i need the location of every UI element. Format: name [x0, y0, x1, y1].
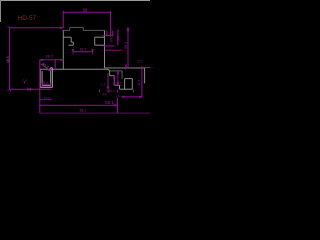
right box right wall: [131, 79, 133, 90]
bottom marks tick b: [108, 90, 110, 93]
right boss top finger: [95, 36, 105, 38]
dim right small arrows: [102, 34, 113, 36]
svg-text:8.4: 8.4: [43, 81, 48, 85]
svg-text:1.6: 1.6: [119, 82, 123, 87]
dim bottom right extension: [116, 98, 118, 114]
svg-text:2.6: 2.6: [116, 36, 120, 41]
right corner arc: [107, 69, 110, 72]
svg-text:18.2: 18.2: [45, 54, 54, 59]
right step wall 1: [109, 72, 111, 76]
svg-text:38: 38: [83, 8, 88, 13]
dim tall right top arrow: [126, 28, 129, 31]
channel outer left wall: [39, 69, 41, 87]
profile bottom face: [40, 68, 107, 70]
right boss inner wall: [94, 37, 96, 45]
dim 38 left extension: [62, 11, 64, 29]
dim 16.2 line: [73, 51, 93, 53]
svg-text:0.9: 0.9: [102, 93, 107, 97]
dim 18.2 arrows: [40, 59, 64, 61]
profile bump right wall: [82, 27, 84, 30]
dim right top tick 2: [112, 31, 114, 37]
channel outer bottom: [40, 86, 52, 88]
dim step wall overlay: [113, 76, 115, 85]
window top border: [0, 0, 150, 2]
dim small tick left: [24, 82, 26, 84]
svg-text:4.9: 4.9: [109, 37, 113, 42]
right step wall 3: [119, 85, 121, 89]
right inner wall: [121, 71, 123, 79]
svg-text:HD-57: HD-57: [18, 15, 37, 22]
dim step vertical: [117, 71, 119, 85]
bottom marks tick c: [117, 90, 119, 93]
channel inner bottom: [42, 85, 51, 87]
right box left wall: [124, 79, 126, 90]
dim left top arrow: [60, 27, 63, 29]
dim left corner arrows: [7, 26, 11, 91]
dim right horizontal long line: [105, 67, 150, 69]
dim 10.6 line: [40, 99, 52, 101]
profile bump top: [70, 26, 83, 28]
channel ledge: [51, 67, 53, 69]
channel inner left wall: [41, 71, 43, 86]
dim 8.4 ticks: [42, 83, 51, 87]
dim left top extension: [10, 27, 63, 29]
dim right small line: [105, 34, 111, 36]
right step wall 2: [113, 76, 115, 86]
dim 8.4 line: [42, 84, 51, 86]
right boss bottom finger: [95, 44, 105, 46]
left boss top finger: [63, 36, 71, 38]
right flange top: [105, 67, 145, 69]
dim 18.2 drop line: [39, 60, 41, 113]
svg-text:16.2: 16.2: [79, 48, 86, 52]
dim 18.2 mid tick: [54, 60, 56, 70]
svg-text:1.6: 1.6: [115, 94, 120, 98]
right inner ledge: [110, 70, 123, 72]
dim left height line: [9, 28, 11, 90]
svg-text:1.4: 1.4: [22, 79, 27, 83]
radius leader line: [40, 64, 50, 71]
right step tread 1: [110, 75, 115, 77]
profile top face left: [63, 29, 70, 31]
dim right inner vertical arrow: [107, 87, 109, 90]
profile right wall: [104, 30, 106, 68]
profile bump left wall: [69, 27, 71, 30]
dim tall right line: [127, 28, 129, 68]
dim right lower line: [104, 45, 115, 47]
svg-text:39.1: 39.1: [124, 42, 128, 49]
bottom right dim line: [122, 96, 142, 98]
dim bottom 56.1 line: [40, 104, 118, 106]
dim step vertical arrows: [117, 71, 119, 85]
svg-text:10.6: 10.6: [44, 96, 50, 100]
dim right lower line 2: [105, 49, 122, 51]
dim 38 line: [63, 11, 110, 13]
svg-text:4.3: 4.3: [110, 89, 115, 93]
dim 2.5 vertical: [141, 66, 143, 97]
svg-text:48.5: 48.5: [6, 56, 10, 63]
dim left bottom extension: [10, 88, 51, 90]
profile left wall: [62, 30, 64, 69]
dim 16.2 arrows: [72, 49, 93, 55]
dim 38 right extension: [110, 11, 112, 37]
right flange wall: [144, 68, 146, 83]
bottom marks tick a: [98, 90, 100, 93]
svg-text:56.1: 56.1: [80, 109, 87, 113]
dim bottom right arrow: [114, 104, 117, 106]
svg-text:2.5: 2.5: [137, 60, 142, 64]
dim base line bottom: [40, 112, 150, 114]
right step tread 2: [114, 84, 119, 86]
right box top: [125, 78, 133, 80]
dim right inner vertical: [107, 73, 109, 89]
dim right top tick 1: [106, 31, 108, 37]
left boss step: [71, 41, 73, 43]
channel inner right wall: [50, 68, 52, 86]
svg-text:11.6: 11.6: [137, 79, 141, 85]
svg-text:56.1: 56.1: [105, 100, 114, 105]
channel outer right wall: [51, 68, 53, 88]
bottom marks arrow line: [106, 90, 109, 92]
down arrow on horizontal: [125, 65, 127, 71]
profile top face right: [83, 29, 104, 31]
dim bottom-left junction arrow: [28, 88, 32, 91]
bottom right dim arrows: [122, 96, 142, 98]
dim right vert small: [117, 30, 119, 46]
left boss outer wall: [70, 37, 72, 42]
left boss lower wall: [72, 42, 74, 45]
svg-text:1.3: 1.3: [101, 82, 106, 86]
left boss bottom finger: [69, 44, 74, 46]
dim 18.2 line: [40, 59, 64, 61]
dim step wall overlay arrows: [113, 76, 115, 85]
right bottom shelf: [120, 88, 133, 90]
bottom marks tick d: [132, 90, 134, 93]
window left border: [0, 0, 2, 22]
